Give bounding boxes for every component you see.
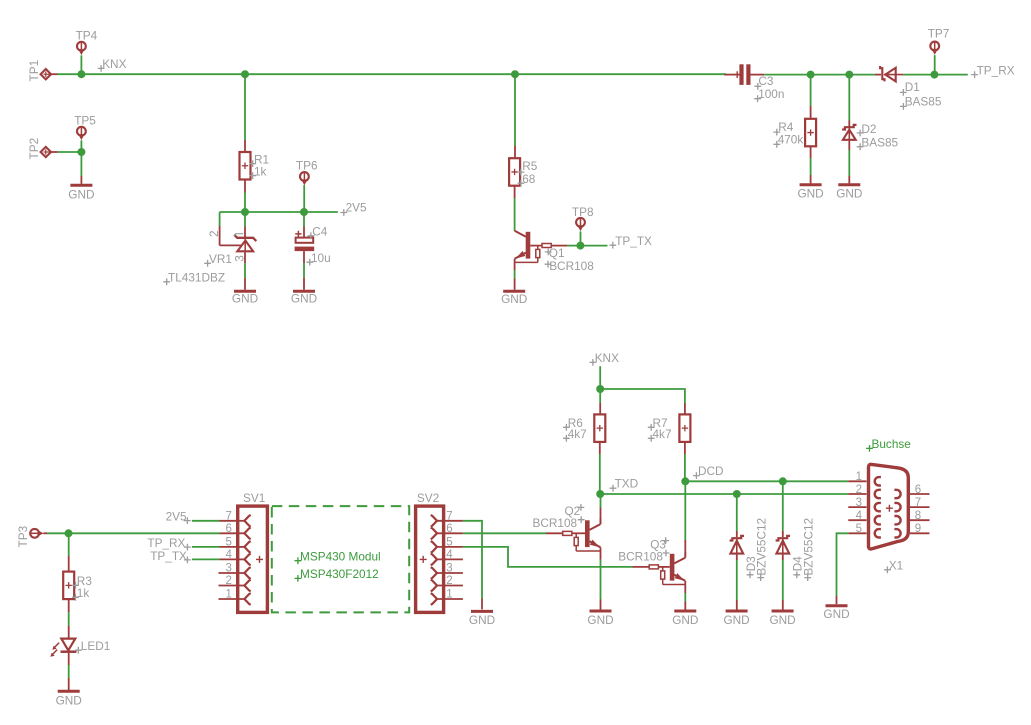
svg-text:GND: GND xyxy=(587,613,613,627)
wire TP8 stem xyxy=(580,231,582,245)
svg-text:470k: 470k xyxy=(778,132,804,146)
node DCD junction at R7 xyxy=(681,477,689,485)
wire R3 to LED1 xyxy=(68,599,70,612)
ground under D2 xyxy=(838,183,860,186)
wire to D2 xyxy=(848,75,850,121)
ground under TP5 xyxy=(70,184,92,187)
svg-text:VR1: VR1 xyxy=(209,252,232,266)
svg-text:BZV55C12: BZV55C12 xyxy=(801,518,815,576)
test point TP2 xyxy=(41,147,51,157)
capacitor C3 xyxy=(724,74,739,76)
svg-text:2: 2 xyxy=(856,484,862,496)
wire TP3 to junction xyxy=(43,532,47,534)
svg-text:TP_RX: TP_RX xyxy=(977,63,1015,77)
svg-text:TP5: TP5 xyxy=(74,114,96,128)
svg-text:GND: GND xyxy=(56,694,82,708)
ground under Q2 xyxy=(590,610,612,613)
svg-text:GND: GND xyxy=(672,613,698,627)
diode D4 BZV55C12 xyxy=(776,536,790,541)
node KNX junction at TP4 xyxy=(77,70,85,78)
test point TP3 xyxy=(30,529,39,538)
transistor Q1 BCR108 xyxy=(515,231,526,237)
label TP_TX xyxy=(609,242,616,249)
wire R5 to Q1 collector xyxy=(514,186,516,198)
svg-text:MSP430 Modul: MSP430 Modul xyxy=(300,549,381,563)
wire junction to R3 xyxy=(68,533,70,556)
wire R1 to 2V5 rail xyxy=(244,180,246,193)
svg-text:GND: GND xyxy=(797,187,823,201)
svg-text:68: 68 xyxy=(522,172,536,186)
resistor R5 xyxy=(509,158,520,186)
node 2V5 junction at R1/VR1 xyxy=(241,208,249,216)
wire R6 to TXD junction xyxy=(599,442,601,454)
ground under R4 xyxy=(800,183,822,186)
svg-text:TP4: TP4 xyxy=(76,28,98,42)
svg-text:7: 7 xyxy=(225,510,231,522)
wire TP5 stem xyxy=(80,140,82,152)
svg-text:BCR108: BCR108 xyxy=(618,550,663,564)
svg-text:GND: GND xyxy=(68,188,94,202)
svg-text:GND: GND xyxy=(836,187,862,201)
svg-text:BAS85: BAS85 xyxy=(861,136,898,150)
wire Q3 emitter to ground xyxy=(684,581,686,593)
svg-text:GND: GND xyxy=(291,292,317,306)
resistor R3 xyxy=(63,572,74,600)
wire DCD to D4 xyxy=(782,481,784,531)
node KNX junction at R5 xyxy=(511,70,519,78)
node junction at R4 xyxy=(807,71,815,79)
wire TP2 to junction xyxy=(51,151,58,153)
svg-text:BZV55C12: BZV55C12 xyxy=(754,518,768,576)
wire X1 pin 5 to ground xyxy=(848,532,866,534)
svg-text:4k7: 4k7 xyxy=(653,427,672,441)
wire KNX to R6 xyxy=(599,389,601,403)
ground under SV2 xyxy=(471,610,493,613)
diode D2 BAS85 xyxy=(842,125,856,130)
svg-text:TP_TX: TP_TX xyxy=(615,234,652,248)
svg-text:4: 4 xyxy=(225,549,232,561)
wire C4 to ground xyxy=(303,251,305,263)
svg-text:DCD: DCD xyxy=(698,464,724,478)
connector SV1 xyxy=(238,506,268,612)
ground under Q3 xyxy=(674,610,696,613)
svg-text:SV2: SV2 xyxy=(417,491,439,505)
wire to R4 xyxy=(810,75,812,106)
svg-text:TP1: TP1 xyxy=(27,60,41,82)
label KNX lower xyxy=(590,359,597,366)
svg-text:MSP430F2012: MSP430F2012 xyxy=(300,567,379,581)
node DCD junction at D4 xyxy=(779,477,787,485)
wire VR1 ref pin 2 xyxy=(219,212,221,226)
diode D1 BAS85 xyxy=(875,74,881,76)
module MSP430 dashed outline xyxy=(272,506,409,612)
wire KNX to R1 xyxy=(244,74,246,140)
svg-text:Buchse: Buchse xyxy=(872,437,912,451)
shunt regulator VR1 xyxy=(234,235,256,241)
svg-text:TP6: TP6 xyxy=(296,159,318,173)
label Buchse xyxy=(866,445,873,452)
test point TP8 xyxy=(576,218,585,227)
svg-text:TP7: TP7 xyxy=(928,27,950,41)
ground under D4 xyxy=(772,610,794,613)
svg-text:C4: C4 xyxy=(312,225,328,239)
label MSP430F2012 xyxy=(295,575,302,582)
wire D1 to TP_RX junction xyxy=(903,74,934,76)
wire 2V5 rail xyxy=(220,211,338,213)
svg-text:KNX: KNX xyxy=(102,57,126,71)
wire TP7 stem xyxy=(934,55,936,75)
svg-text:10u: 10u xyxy=(311,251,331,265)
wire R7 to DCD junction xyxy=(684,442,686,454)
wire 2V5 to SV1 pin 7 xyxy=(192,520,220,522)
svg-text:GND: GND xyxy=(232,292,258,306)
led LED1 xyxy=(61,639,75,651)
wire SV2 pin 5 to Q3 base xyxy=(463,547,633,567)
svg-text:BCR108: BCR108 xyxy=(533,516,578,530)
svg-text:LED1: LED1 xyxy=(81,639,111,653)
svg-text:TP_TX: TP_TX xyxy=(150,549,187,563)
svg-text:BAS85: BAS85 xyxy=(905,94,942,108)
svg-text:BCR108: BCR108 xyxy=(549,259,594,273)
node KNX junction lower xyxy=(596,385,604,393)
label KNX xyxy=(98,65,105,72)
svg-text:1: 1 xyxy=(856,471,862,483)
wire VR1 anode to ground xyxy=(244,252,246,263)
svg-text:X1: X1 xyxy=(889,559,903,573)
wire Q1 emitter to ground xyxy=(514,259,516,270)
svg-text:1k: 1k xyxy=(254,165,267,179)
svg-text:GND: GND xyxy=(469,613,495,627)
label 2V5 xyxy=(340,209,347,216)
wire SV2 pin 7 to ground xyxy=(463,521,482,599)
svg-text:D2: D2 xyxy=(861,122,876,136)
resistor R4 xyxy=(805,119,816,147)
resistor R1 xyxy=(240,152,251,180)
wire junction to SV1 pin 6 xyxy=(69,532,220,534)
svg-text:4k7: 4k7 xyxy=(568,427,587,441)
wire LED1 to ground xyxy=(68,653,70,665)
wire D2 to ground xyxy=(848,141,850,150)
svg-text:TP2: TP2 xyxy=(27,138,41,160)
node 2V5 junction at C4 xyxy=(300,208,308,216)
wire to ground under TP5 xyxy=(80,152,82,176)
node TP_TX junction xyxy=(576,242,584,250)
wire TP_TX to SV1 pin 4 xyxy=(192,558,220,560)
svg-text:5: 5 xyxy=(225,536,231,548)
svg-text:Q1: Q1 xyxy=(549,246,565,260)
wire KNX to R5 xyxy=(514,74,516,146)
svg-text:SV1: SV1 xyxy=(243,491,265,505)
wire C3 to D1 xyxy=(764,74,875,76)
label MSP430 Modul xyxy=(295,557,302,564)
svg-text:2: 2 xyxy=(207,230,221,237)
svg-text:GND: GND xyxy=(823,607,849,621)
wire TP1 to KNX junction xyxy=(51,73,58,75)
transistor Q2 BCR108 xyxy=(600,518,602,524)
test point TP7 xyxy=(930,42,939,51)
transistor Q3 BCR108 xyxy=(684,552,686,558)
svg-text:GND: GND xyxy=(769,613,795,627)
wire R4 to ground xyxy=(810,146,812,158)
wire TXD to X1 pin 2 xyxy=(600,493,848,495)
wire KNX stem lower xyxy=(599,366,601,389)
wire TP6 stem xyxy=(303,185,305,212)
ground under X1 xyxy=(826,604,848,607)
wire KNX horizontal rail xyxy=(81,73,726,75)
wire TP_TX stub xyxy=(580,245,607,247)
connector SV2 xyxy=(416,506,444,612)
wire KNX rail to R7 xyxy=(600,389,685,403)
ground under D3 xyxy=(726,610,748,613)
node junction TP3/R3 xyxy=(65,529,73,537)
svg-text:TXD: TXD xyxy=(615,476,639,490)
svg-text:TL431DBZ: TL431DBZ xyxy=(168,271,225,285)
node TP_RX junction xyxy=(930,71,938,79)
svg-text:TP8: TP8 xyxy=(572,205,594,219)
label DCD xyxy=(693,472,700,479)
wire D3 to ground xyxy=(736,555,738,560)
ground under LED1 xyxy=(58,690,80,693)
svg-text:D1: D1 xyxy=(905,80,920,94)
ground under C4 xyxy=(293,290,315,293)
svg-text:GND: GND xyxy=(723,613,749,627)
wire DCD to X1 pin 1 xyxy=(685,480,848,482)
capacitor C4 polarized xyxy=(296,238,314,243)
wire Q1 base to TP_TX xyxy=(567,245,580,247)
node junction TP2/TP5 xyxy=(77,148,85,156)
test point TP4 xyxy=(77,42,86,51)
resistor R6 xyxy=(594,414,605,442)
svg-text:GND: GND xyxy=(501,292,527,306)
wire VR1 cathode stem xyxy=(244,212,246,227)
wire TP_RX to SV1 pin 5 xyxy=(192,546,220,548)
connector X1 DB9 outline xyxy=(869,464,909,549)
node KNX junction at R1 xyxy=(241,70,249,78)
svg-text:1k: 1k xyxy=(77,586,90,600)
test point TP1 xyxy=(41,69,51,79)
ground under Q1 xyxy=(503,290,525,293)
wire TP4 stem xyxy=(80,55,82,74)
wire Q2 collector to TXD xyxy=(600,508,602,519)
wire D4 to ground xyxy=(782,555,784,560)
node junction at D2 xyxy=(845,71,853,79)
wire TXD to D3 xyxy=(736,494,738,531)
svg-text:6: 6 xyxy=(225,523,231,535)
wire SV2 pin 6 to Q2 base xyxy=(463,532,546,534)
resistor R7 xyxy=(679,414,690,442)
label TP_RX xyxy=(971,71,978,78)
wire 2V5 to C4 xyxy=(303,212,305,227)
wire DCD vertical to Q3 collector xyxy=(684,481,686,540)
svg-text:2V5: 2V5 xyxy=(166,509,187,523)
svg-text:TP3: TP3 xyxy=(16,525,30,547)
diode D3 BZV55C12 xyxy=(730,536,744,541)
svg-text:100n: 100n xyxy=(758,87,784,101)
test point TP6 xyxy=(300,172,309,181)
ground under VR1 xyxy=(234,290,256,293)
svg-text:KNX: KNX xyxy=(595,351,619,365)
node TXD junction at R6 xyxy=(596,490,604,498)
label TXD xyxy=(610,485,617,492)
test point TP5 xyxy=(77,127,86,136)
svg-text:2V5: 2V5 xyxy=(346,201,367,215)
wire Q2 emitter to ground xyxy=(600,547,602,559)
node TXD junction at D3 xyxy=(733,490,741,498)
wire TP_RX stub xyxy=(934,74,967,76)
